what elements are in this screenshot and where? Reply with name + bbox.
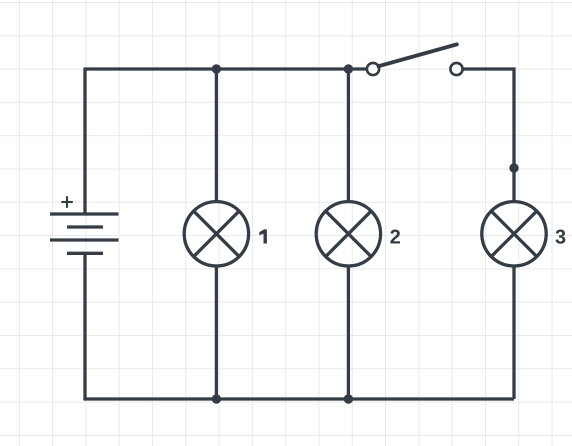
wire: branch 2 vertical bottom xyxy=(347,267,350,400)
junction dot: branch 2 / top wire xyxy=(344,64,353,73)
junction dot: branch 1 / bottom wire xyxy=(212,394,221,403)
wire: branch 2 vertical top xyxy=(347,69,350,202)
battery B1 plates xyxy=(50,214,119,253)
lamp L3 xyxy=(482,202,546,266)
wire: left vertical from top wire down to battery xyxy=(83,68,86,215)
lamp L1 xyxy=(184,202,248,266)
label 1 xyxy=(259,229,267,243)
wire: branch 1 vertical bottom xyxy=(215,267,218,400)
label 3 xyxy=(555,230,565,244)
switch S1 terminal circle right xyxy=(450,63,462,75)
wire: top horizontal from left branch to switch terminal xyxy=(85,67,367,70)
label 2 xyxy=(390,230,400,244)
wire: branch 1 vertical top xyxy=(215,69,218,202)
junction dot: branch 1 / top wire xyxy=(212,64,221,73)
wire: left vertical below battery to bottom-left corner xyxy=(83,253,86,399)
wire: switch to right corner and down to lamp 3 xyxy=(463,69,514,202)
wire: lamp 3 bottom to bottom wire xyxy=(512,267,515,400)
lamp L2 xyxy=(316,202,380,266)
switch S1 terminal circle left xyxy=(367,63,379,75)
wire: bottom horizontal xyxy=(83,397,514,400)
switch S1 lever arm xyxy=(379,44,457,66)
junction dot: branch 2 / bottom wire xyxy=(344,394,353,403)
junction dot: right branch xyxy=(509,163,518,172)
battery B1 plus sign xyxy=(61,196,73,208)
